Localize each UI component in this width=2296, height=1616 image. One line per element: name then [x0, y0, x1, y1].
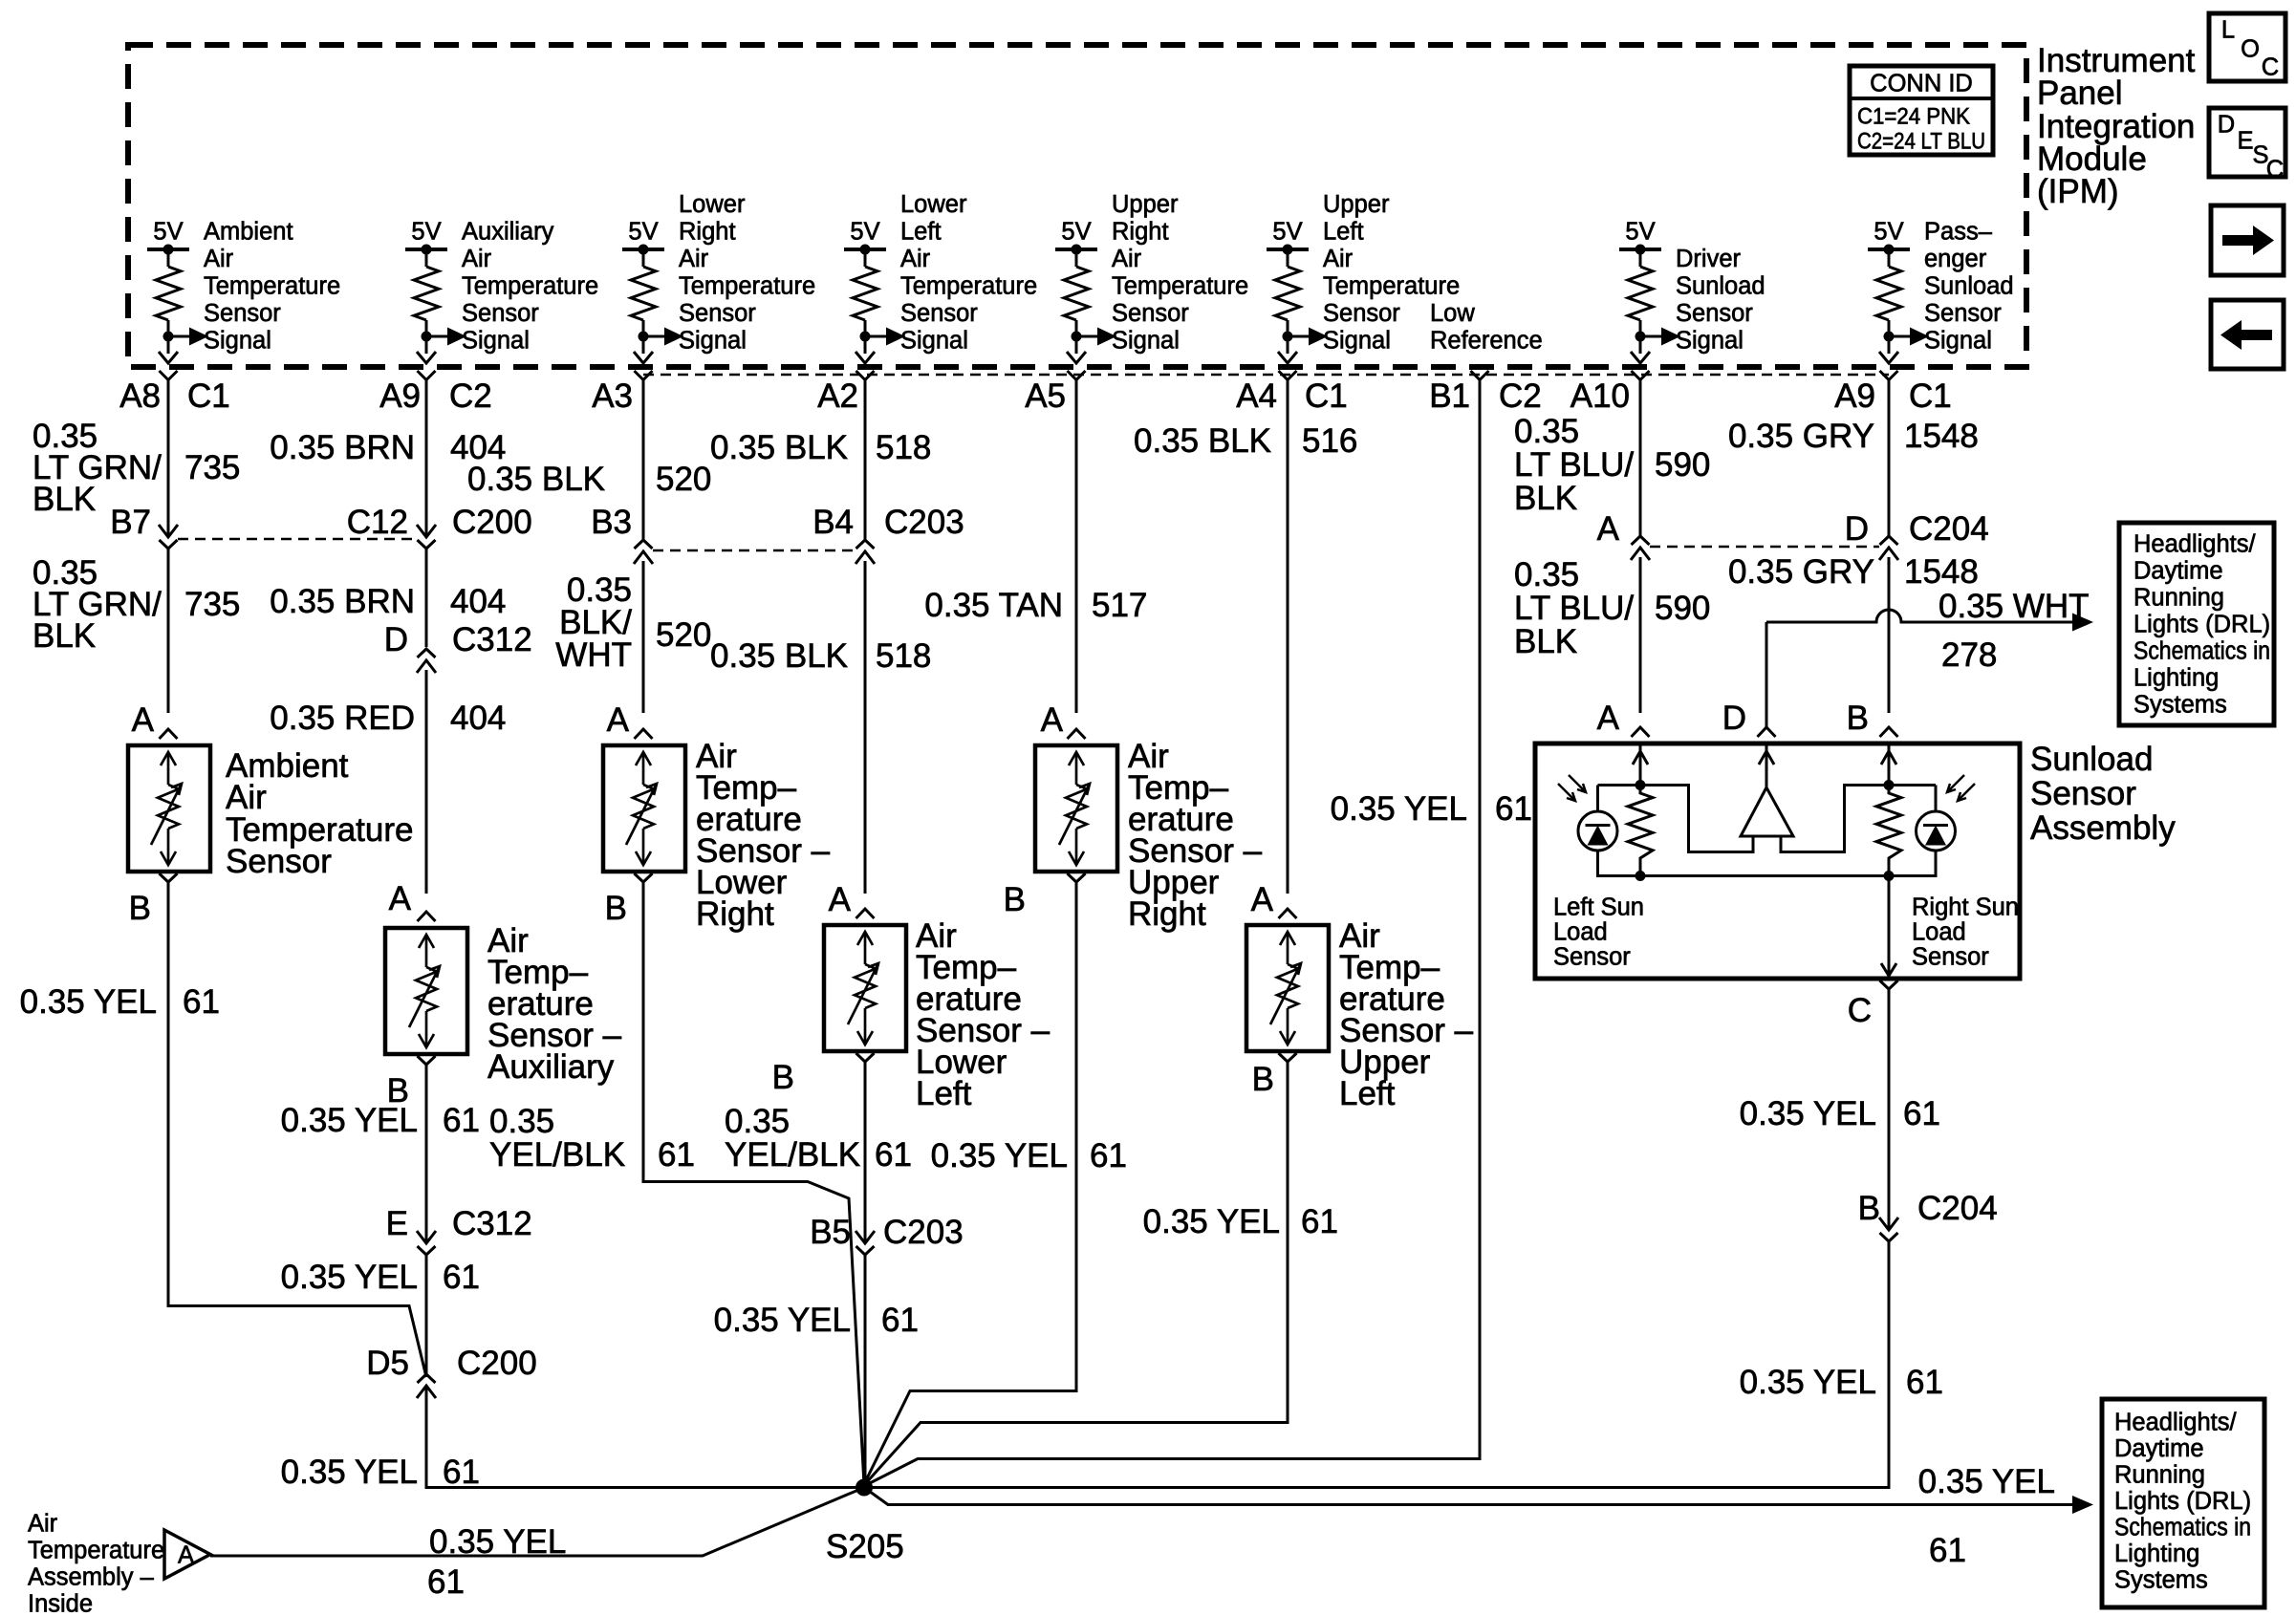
svg-text:Right: Right	[679, 219, 736, 246]
connector module pin A8 x176	[160, 371, 178, 380]
svg-text:5V: 5V	[850, 219, 879, 246]
light arrows right photodiode	[1958, 784, 1975, 801]
svg-text:61: 61	[1090, 1137, 1127, 1174]
svg-text:B7: B7	[110, 504, 151, 541]
wire 735 col1 upper	[167, 379, 170, 537]
svg-text:Headlights/: Headlights/	[2134, 531, 2256, 558]
wire 61 col6 down elbow diagonal to S205	[1287, 1062, 1289, 1424]
wire op-amp right input	[1781, 851, 1843, 853]
CONN ID table	[1850, 66, 1993, 155]
wire 61 from triangle to S205	[210, 1488, 864, 1557]
svg-text:0.35: 0.35	[489, 1103, 554, 1140]
connector module pin A9 x446	[418, 371, 436, 380]
sensor air temperature auxiliary box	[385, 928, 467, 1054]
wire op-amp left input	[1640, 784, 1690, 786]
connector A upper left sensor	[1279, 909, 1297, 918]
wire 278 0.35 WHT to DRL with hop over col9	[1765, 622, 1768, 727]
svg-text:5V: 5V	[411, 219, 441, 246]
svg-text:A: A	[389, 880, 412, 917]
svg-text:Sensor: Sensor	[2030, 775, 2136, 812]
svg-text:Air: Air	[1323, 246, 1354, 272]
wire 404 col2 mid	[425, 547, 428, 647]
svg-text:Lighting: Lighting	[2134, 665, 2219, 692]
wire splice horizontal through S205	[864, 1486, 1889, 1489]
resistor 5V pull-up auxiliary	[405, 245, 466, 364]
connector A air temperature assembly triangle	[164, 1530, 210, 1579]
svg-text:735: 735	[184, 449, 240, 486]
svg-text:61: 61	[1906, 1364, 1943, 1401]
svg-text:Schematics in: Schematics in	[2114, 1515, 2251, 1541]
svg-text:A3: A3	[592, 377, 633, 415]
svg-text:Signal: Signal	[1676, 328, 1744, 355]
svg-text:C: C	[1848, 992, 1872, 1029]
svg-text:A: A	[178, 1542, 194, 1569]
wire 61 col9 seg1	[1888, 989, 1891, 1229]
svg-text:C1: C1	[1305, 377, 1348, 415]
connector D5 C200 inline	[417, 1386, 436, 1398]
svg-text:278: 278	[1941, 636, 1997, 674]
svg-text:A10: A10	[1570, 377, 1630, 415]
svg-text:Air: Air	[462, 246, 492, 272]
svg-text:A4: A4	[1236, 377, 1277, 415]
wire sunload output C	[1888, 877, 1891, 977]
svg-text:0.35 BLK: 0.35 BLK	[1134, 422, 1271, 460]
svg-text:BLK: BLK	[1514, 480, 1577, 517]
photodiode right sun load sensor	[1917, 811, 1956, 851]
svg-text:Daytime: Daytime	[2114, 1435, 2204, 1462]
svg-text:Temperature: Temperature	[462, 273, 598, 300]
svg-text:0.35 YEL: 0.35 YEL	[1143, 1203, 1280, 1240]
svg-text:Running: Running	[2134, 585, 2224, 612]
resistor 5V pull-up passenger sunload	[1868, 245, 1929, 364]
svg-text:A: A	[829, 881, 852, 918]
svg-text:0.35 YEL: 0.35 YEL	[1740, 1095, 1876, 1132]
svg-text:61: 61	[658, 1136, 695, 1174]
svg-text:Lighting: Lighting	[2114, 1541, 2199, 1567]
svg-text:0.35 YEL: 0.35 YEL	[931, 1137, 1068, 1174]
svg-text:Ambient: Ambient	[204, 219, 293, 246]
svg-text:Right: Right	[1112, 219, 1169, 246]
svg-text:C204: C204	[1917, 1190, 1998, 1227]
wire 61 col2 seg1	[425, 1065, 428, 1242]
svg-text:1548: 1548	[1904, 418, 1979, 455]
svg-text:A: A	[132, 701, 155, 739]
svg-text:Temperature: Temperature	[204, 273, 340, 300]
svg-text:Headlights/: Headlights/	[2114, 1410, 2237, 1436]
svg-text:520: 520	[656, 461, 711, 498]
svg-text:Inside: Inside	[28, 1591, 93, 1616]
svg-text:B: B	[605, 890, 627, 927]
svg-text:0.35 YEL: 0.35 YEL	[281, 1102, 418, 1139]
svg-text:Assembly –: Assembly –	[28, 1564, 155, 1591]
svg-text:0.35: 0.35	[725, 1103, 790, 1140]
svg-text:61: 61	[183, 983, 220, 1021]
svg-text:Left: Left	[916, 1075, 972, 1112]
svg-text:Low: Low	[1430, 300, 1475, 327]
svg-text:61: 61	[881, 1302, 919, 1339]
svg-text:Sensor: Sensor	[1924, 300, 2002, 327]
photodiode left sun load sensor	[1578, 811, 1617, 851]
svg-text:Sunload: Sunload	[2030, 741, 2153, 778]
svg-text:61: 61	[875, 1136, 912, 1174]
svg-text:590: 590	[1655, 590, 1710, 627]
svg-text:B: B	[129, 890, 151, 927]
icon DESC	[2209, 108, 2285, 177]
svg-text:BLK: BLK	[32, 481, 96, 518]
svg-text:LT BLU/: LT BLU/	[1514, 590, 1634, 627]
resistor 5V pull-up lower right	[622, 245, 683, 364]
svg-text:C203: C203	[883, 1214, 964, 1251]
svg-text:Upper: Upper	[1112, 191, 1179, 218]
svg-text:CONN ID: CONN ID	[1870, 71, 1973, 97]
wire 590 col8 upper	[1639, 379, 1642, 536]
svg-text:Signal: Signal	[1924, 328, 1992, 355]
resistor 5V pull-up driver sunload	[1619, 245, 1680, 364]
connector module pin A5 x1126	[1068, 371, 1086, 380]
svg-text:Signal: Signal	[1323, 328, 1391, 355]
svg-text:0.35 YEL: 0.35 YEL	[20, 983, 157, 1021]
svg-text:YEL/BLK: YEL/BLK	[725, 1136, 860, 1174]
svg-text:Upper: Upper	[1323, 191, 1390, 218]
svg-text:E: E	[2237, 128, 2253, 155]
svg-text:Running: Running	[2114, 1462, 2205, 1489]
connector B lower left sensor	[856, 1053, 875, 1062]
svg-text:516: 516	[1302, 422, 1357, 460]
wire 61 col2 seg2	[425, 1253, 428, 1374]
svg-text:Signal: Signal	[204, 328, 271, 355]
connector C sunload	[1880, 980, 1898, 989]
icon arrow right	[2211, 205, 2284, 275]
sunload sensor assembly box	[1535, 743, 2020, 979]
connector D C204 inline	[1879, 548, 1898, 560]
connector B3 inline	[634, 551, 653, 564]
svg-text:WHT: WHT	[555, 636, 632, 674]
svg-text:A: A	[1041, 701, 1064, 739]
resistor 5V pull-up upper left	[1267, 245, 1328, 364]
svg-text:Panel: Panel	[2037, 75, 2123, 112]
icon arrow left	[2211, 300, 2284, 369]
svg-text:61: 61	[443, 1102, 480, 1139]
module IPM dashed box	[128, 45, 2026, 367]
svg-text:BLK: BLK	[1514, 623, 1577, 660]
svg-text:Sensor: Sensor	[679, 300, 756, 327]
connector A C204 inline	[1631, 548, 1650, 560]
svg-text:Sensor: Sensor	[204, 300, 281, 327]
wire 517 col5 upper	[1075, 379, 1078, 713]
resistor 5V pull-up lower left	[844, 245, 905, 364]
sensor air temperature upper right box	[1035, 745, 1117, 872]
svg-text:A9: A9	[379, 377, 421, 415]
connector module pin A10 x1716	[1632, 371, 1650, 380]
box headlights DRL reference upper	[2119, 523, 2274, 725]
svg-text:Right Sun: Right Sun	[1912, 894, 2019, 921]
connector module pin A4 x1347	[1279, 371, 1297, 380]
svg-text:0.35 BLK: 0.35 BLK	[467, 461, 605, 498]
svg-text:Signal: Signal	[900, 328, 968, 355]
svg-text:B3: B3	[591, 504, 632, 541]
svg-text:C2=24 LT BLU: C2=24 LT BLU	[1857, 129, 1985, 155]
svg-text:0.35 BLK: 0.35 BLK	[710, 429, 848, 466]
wire 1548 col9 lower	[1888, 557, 1891, 713]
op-amp sunload amplifier	[1741, 787, 1793, 836]
svg-text:Signal: Signal	[462, 328, 530, 355]
svg-text:D: D	[2218, 112, 2235, 139]
svg-text:B: B	[1004, 881, 1026, 918]
svg-text:0.35 YEL: 0.35 YEL	[429, 1523, 566, 1561]
svg-text:Pass–: Pass–	[1924, 219, 1993, 246]
svg-text:518: 518	[876, 637, 931, 675]
svg-text:A5: A5	[1025, 377, 1066, 415]
connector A lower left sensor	[856, 909, 875, 918]
svg-text:A: A	[1597, 700, 1620, 737]
svg-text:Temperature: Temperature	[900, 273, 1037, 300]
svg-text:735: 735	[184, 586, 240, 623]
svg-text:Left: Left	[1323, 219, 1364, 246]
wire 61 col4 down to S205	[864, 1253, 867, 1487]
svg-text:517: 517	[1092, 587, 1147, 624]
box headlights DRL reference lower	[2102, 1399, 2264, 1607]
svg-text:Systems: Systems	[2114, 1567, 2208, 1594]
connector module pin B1 x1548	[1471, 371, 1489, 380]
svg-text:Left Sun: Left Sun	[1553, 894, 1644, 921]
svg-text:5V: 5V	[153, 219, 183, 246]
svg-text:O: O	[2241, 36, 2260, 63]
wire 516 col6 upper	[1287, 379, 1289, 894]
svg-text:590: 590	[1655, 446, 1710, 484]
svg-text:A2: A2	[817, 377, 858, 415]
svg-text:404: 404	[450, 583, 506, 620]
wire 404 col2 lower	[425, 670, 428, 894]
connector A lower right sensor	[635, 729, 653, 739]
svg-text:5V: 5V	[628, 219, 658, 246]
svg-text:C2: C2	[1499, 377, 1542, 415]
svg-text:61: 61	[1903, 1095, 1940, 1132]
connector B auxiliary sensor	[418, 1056, 436, 1065]
connector A upper right sensor	[1068, 729, 1086, 739]
wire 404 col2 upper	[425, 379, 428, 537]
svg-text:S205: S205	[826, 1528, 904, 1565]
svg-text:Sensor: Sensor	[1912, 944, 1989, 971]
svg-text:Sensor: Sensor	[900, 300, 978, 327]
svg-text:Air: Air	[28, 1511, 58, 1538]
svg-text:61: 61	[1929, 1532, 1966, 1569]
wire pin A inside sunload	[1639, 743, 1642, 785]
svg-text:BLK: BLK	[32, 617, 96, 655]
svg-text:520: 520	[656, 616, 711, 654]
svg-text:C203: C203	[884, 504, 964, 541]
svg-text:L: L	[2221, 17, 2235, 44]
connector B7 inline	[159, 525, 178, 537]
svg-text:Systems: Systems	[2134, 692, 2227, 719]
svg-text:B1: B1	[1429, 377, 1470, 415]
sensor air temperature lower left box	[824, 925, 906, 1051]
svg-text:A: A	[1251, 881, 1274, 918]
svg-text:5V: 5V	[1061, 219, 1091, 246]
dashed line B3-B4	[653, 549, 856, 552]
svg-text:Air: Air	[679, 246, 709, 272]
junction dots sunload bottom	[1635, 871, 1646, 881]
connector B4 C203 inline	[856, 551, 875, 564]
svg-text:0.35 YEL: 0.35 YEL	[1740, 1364, 1876, 1401]
wire 61 col1 down	[167, 882, 170, 1307]
wire 61 col3 down elbow diagonal to S205	[642, 882, 645, 1183]
svg-text:Sensor: Sensor	[1676, 300, 1753, 327]
svg-text:D: D	[1845, 510, 1869, 548]
wire 61 col4 down seg1	[864, 1062, 867, 1242]
svg-text:D: D	[1722, 700, 1746, 737]
svg-text:Sensor: Sensor	[462, 300, 539, 327]
wire sunload bottom rail	[1598, 874, 1937, 877]
svg-text:Temperature: Temperature	[28, 1538, 164, 1564]
svg-text:C: C	[2266, 157, 2284, 183]
svg-text:61: 61	[1495, 790, 1532, 828]
svg-text:Right: Right	[1128, 895, 1206, 933]
svg-text:518: 518	[876, 429, 931, 466]
svg-text:Air: Air	[900, 246, 931, 272]
connector B C204 inline	[1879, 1217, 1898, 1230]
svg-text:Lower: Lower	[679, 191, 746, 218]
svg-text:0.35 RED: 0.35 RED	[270, 700, 415, 737]
svg-text:Left: Left	[1339, 1075, 1396, 1112]
dashed line A-D C204	[1650, 546, 1879, 549]
svg-text:LT BLU/: LT BLU/	[1514, 446, 1634, 484]
svg-text:enger: enger	[1924, 246, 1987, 272]
svg-text:C: C	[2262, 54, 2279, 81]
svg-text:Schematics in: Schematics in	[2134, 638, 2270, 665]
svg-text:Lights (DRL): Lights (DRL)	[2114, 1488, 2251, 1515]
wire 518 col4 upper	[864, 379, 867, 540]
svg-text:Auxiliary: Auxiliary	[462, 219, 554, 246]
svg-text:C312: C312	[452, 621, 532, 658]
connector E C312 inline	[417, 1231, 436, 1243]
svg-text:Sunload: Sunload	[1924, 273, 2014, 300]
svg-text:Air: Air	[1112, 246, 1142, 272]
wire pin D inside sunload	[1765, 743, 1768, 789]
svg-text:(IPM): (IPM)	[2037, 173, 2119, 210]
connector module pin A9 x1976	[1880, 371, 1898, 380]
svg-text:Lights (DRL): Lights (DRL)	[2134, 612, 2270, 638]
svg-text:A8: A8	[119, 377, 161, 415]
svg-text:Auxiliary: Auxiliary	[487, 1048, 615, 1086]
svg-text:Sunload: Sunload	[1676, 273, 1765, 300]
junction dots sunload top	[1635, 780, 1646, 790]
wire 61 col7 low reference down elbow diagonal to S205	[1479, 379, 1482, 1460]
connector B ambient sensor	[160, 873, 178, 882]
svg-text:B5: B5	[810, 1214, 851, 1251]
wire diagonal S205 to DRL arrow	[864, 1488, 2072, 1505]
svg-text:0.35 YEL: 0.35 YEL	[281, 1454, 418, 1491]
svg-text:61: 61	[443, 1259, 480, 1296]
svg-text:5V: 5V	[1272, 219, 1302, 246]
svg-text:Air: Air	[204, 246, 234, 272]
svg-text:B: B	[1847, 700, 1869, 737]
svg-text:B: B	[1252, 1061, 1274, 1098]
svg-text:D: D	[384, 621, 408, 658]
resistor right sunload	[1876, 785, 1901, 877]
svg-text:404: 404	[450, 700, 506, 737]
svg-text:Load: Load	[1553, 919, 1608, 946]
svg-text:C12: C12	[347, 504, 408, 541]
svg-text:Daytime: Daytime	[2134, 558, 2223, 585]
resistor 5V pull-up ambient	[147, 245, 208, 364]
connector B lower right sensor	[635, 873, 653, 882]
connector D sunload assembly	[1758, 727, 1776, 737]
svg-text:C200: C200	[452, 504, 532, 541]
connector module pin A3 x673	[635, 371, 653, 380]
svg-text:Lower: Lower	[900, 191, 967, 218]
wire 61 col5 down elbow diagonal to S205	[1075, 882, 1078, 1392]
dashed line B7-C12	[178, 538, 417, 541]
svg-text:0.35: 0.35	[1514, 556, 1579, 593]
svg-text:C200: C200	[457, 1345, 537, 1382]
svg-text:Signal: Signal	[679, 328, 747, 355]
wire 61 col9 seg2 elbow to S205 line	[1888, 1239, 1891, 1489]
wire 518 col4 lower	[864, 561, 867, 894]
connector A auxiliary sensor	[418, 912, 436, 921]
svg-text:C2: C2	[449, 377, 492, 415]
svg-text:1548: 1548	[1904, 553, 1979, 591]
svg-text:A9: A9	[1834, 377, 1875, 415]
svg-text:Left: Left	[900, 219, 942, 246]
svg-text:A: A	[1597, 510, 1620, 548]
wire 1548 col9 upper	[1888, 379, 1891, 536]
svg-text:0.35 YEL: 0.35 YEL	[281, 1259, 418, 1296]
svg-text:Signal: Signal	[1112, 328, 1180, 355]
svg-text:D5: D5	[366, 1345, 409, 1382]
svg-text:0.35 YEL: 0.35 YEL	[714, 1302, 851, 1339]
svg-text:61: 61	[1301, 1203, 1338, 1240]
connector module pin A2 x905	[856, 371, 875, 380]
sensor ambient air temperature box	[128, 745, 210, 872]
svg-text:0.35 BRN: 0.35 BRN	[270, 583, 415, 620]
svg-text:0.35: 0.35	[1514, 413, 1579, 450]
connector B upper left sensor	[1279, 1053, 1297, 1062]
svg-text:Load: Load	[1912, 919, 1966, 946]
svg-text:YEL/BLK: YEL/BLK	[489, 1136, 625, 1174]
svg-text:C1=24 PNK: C1=24 PNK	[1857, 104, 1970, 130]
resistor left sunload	[1628, 785, 1653, 877]
svg-text:0.35 GRY: 0.35 GRY	[1728, 418, 1874, 455]
svg-text:C1: C1	[187, 377, 230, 415]
svg-text:Sensor: Sensor	[1553, 944, 1631, 971]
svg-text:Sensor: Sensor	[226, 843, 332, 880]
svg-text:61: 61	[443, 1454, 480, 1491]
wire 61 col2 seg3 elbow to S205	[425, 1386, 428, 1489]
thin dashed connector line C1/C2 row	[643, 374, 1889, 377]
svg-text:C1: C1	[1909, 377, 1952, 415]
svg-text:E: E	[386, 1205, 408, 1242]
wire 735 col1 lower	[167, 547, 170, 713]
sensor air temperature lower right box	[603, 745, 685, 872]
svg-text:B: B	[1858, 1190, 1880, 1227]
svg-text:B4: B4	[812, 504, 854, 541]
svg-text:5V: 5V	[1874, 219, 1903, 246]
svg-text:0.35 GRY: 0.35 GRY	[1728, 553, 1874, 591]
svg-text:A: A	[607, 701, 630, 739]
svg-text:0.35 BRN: 0.35 BRN	[270, 429, 415, 466]
wire 520 col3 lower	[642, 561, 645, 713]
svg-text:Reference: Reference	[1430, 328, 1543, 355]
connector C12 C200 inline	[417, 525, 436, 537]
svg-text:C204: C204	[1909, 510, 1989, 548]
wire 61 col1 elbow to col2	[168, 1306, 426, 1378]
svg-text:0.35 BLK: 0.35 BLK	[710, 637, 848, 675]
light arrows left photodiode	[1558, 784, 1575, 801]
svg-text:61: 61	[427, 1563, 465, 1601]
wire 520 col3 upper	[642, 379, 645, 540]
svg-text:5V: 5V	[1625, 219, 1655, 246]
sensor air temperature upper left box	[1246, 925, 1329, 1051]
